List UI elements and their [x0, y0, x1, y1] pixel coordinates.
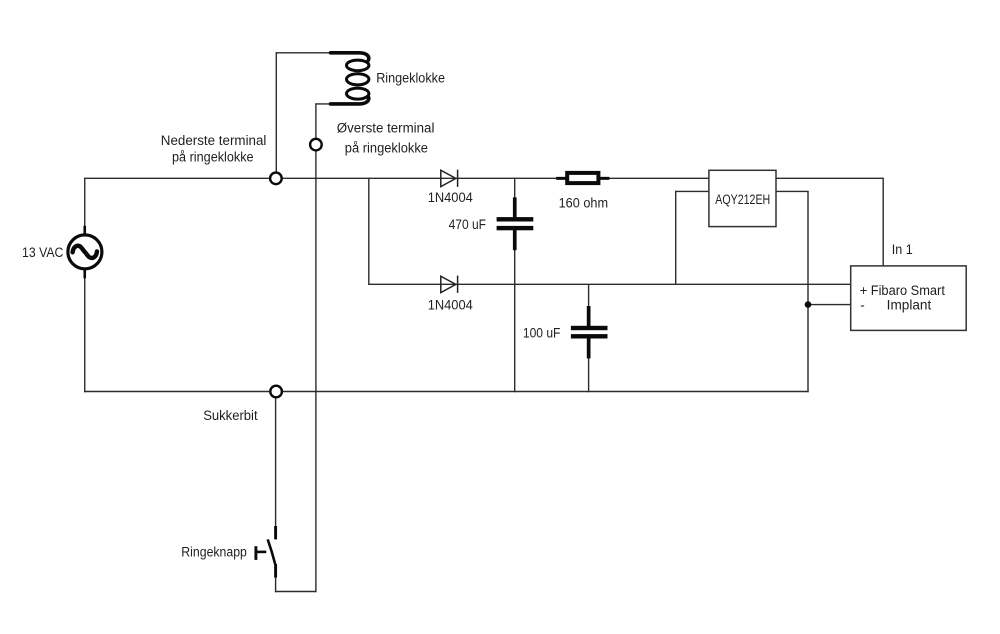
- wire In 1 vertical drop to Fibaro box top: [882, 178, 884, 266]
- diode D1 1N4004 top: [441, 170, 458, 187]
- IC U1 AQY212EH box: [709, 170, 776, 226]
- wire minus line from junction to Fibaro box: [808, 304, 851, 306]
- wire AQY left lower pin vertical to second rail: [675, 191, 677, 285]
- resistor R1 160 ohm: [556, 173, 609, 183]
- node terminal Nederste (on top rail): [270, 173, 282, 185]
- wire coil bottom lead horizontal: [316, 103, 332, 105]
- svg-text:AQY212EH: AQY212EH: [715, 192, 770, 207]
- svg-text:1N4004: 1N4004: [428, 298, 474, 313]
- module U2 Fibaro Smart Implant box: [851, 266, 967, 331]
- wire switch bottom horizontal: [275, 591, 316, 593]
- wire bottom rail: [84, 391, 809, 393]
- wire 100uF top thin lead: [588, 284, 590, 307]
- wire AQY left lower pin stub: [676, 190, 709, 192]
- wire from switch bottom contact down: [275, 577, 277, 592]
- svg-text:Øverste terminal: Øverste terminal: [337, 121, 435, 136]
- wire left vertical through 13 VAC source: [84, 178, 86, 393]
- node terminal Øverste: [310, 139, 322, 151]
- svg-text:Ringeklokke: Ringeklokke: [376, 71, 445, 86]
- switch S1 Ringeknapp push button: [256, 526, 276, 578]
- wire top rail from AQY212EH right pin to In 1 corner: [776, 177, 883, 179]
- svg-text:100 uF: 100 uF: [523, 326, 561, 341]
- svg-text:Ringeknapp: Ringeknapp: [181, 544, 247, 559]
- svg-text:+ Fibaro Smart: + Fibaro Smart: [860, 283, 945, 298]
- diode D2 1N4004 bottom: [441, 276, 458, 293]
- svg-text:In 1: In 1: [892, 242, 913, 257]
- wire from Sukkerbit terminal down to switch: [275, 392, 277, 527]
- node junction dot on minus line: [805, 301, 812, 308]
- AC source V1 13 VAC: [68, 226, 102, 278]
- svg-text:470 uF: 470 uF: [449, 217, 486, 232]
- svg-text:Nederste terminal: Nederste terminal: [161, 133, 267, 148]
- capacitor C2 100 uF: [571, 306, 608, 358]
- svg-text:Sukkerbit: Sukkerbit: [203, 408, 258, 423]
- svg-text:på ringeklokke: på ringeklokke: [345, 141, 428, 156]
- capacitor C1 470 uF: [497, 197, 534, 250]
- svg-text:160 ohm: 160 ohm: [559, 196, 609, 211]
- wire coil left lead vertical to Nederste terminal: [275, 52, 277, 178]
- wire coil top lead horizontal: [276, 52, 332, 54]
- wire left branch from top rail down to second rail: [368, 178, 370, 285]
- wire top rail from source to AQY212EH: [85, 177, 709, 179]
- wire AQY right pin vertical down to bottom rail: [807, 191, 809, 392]
- inductor L1 Ringeklokke coil: [331, 53, 369, 104]
- svg-text:Implant: Implant: [887, 298, 932, 313]
- svg-text:-: -: [860, 298, 865, 313]
- svg-text:1N4004: 1N4004: [428, 190, 474, 205]
- wire 470uF bottom thin lead crossing second rail to bottom rail: [514, 250, 516, 393]
- svg-text:13 VAC: 13 VAC: [22, 245, 64, 260]
- wire from coil bottom to Øverste terminal and down past rails: [315, 103, 317, 592]
- wire plus rail (second rail) to Fibaro box: [369, 283, 851, 285]
- wire 100uF bottom thin lead: [588, 358, 590, 392]
- node terminal Sukkerbit (on bottom rail): [270, 386, 282, 398]
- wire AQY right lower pin stub: [776, 190, 809, 192]
- wire 470uF top thin lead: [514, 178, 516, 199]
- svg-text:på ringeklokke: på ringeklokke: [172, 150, 254, 165]
